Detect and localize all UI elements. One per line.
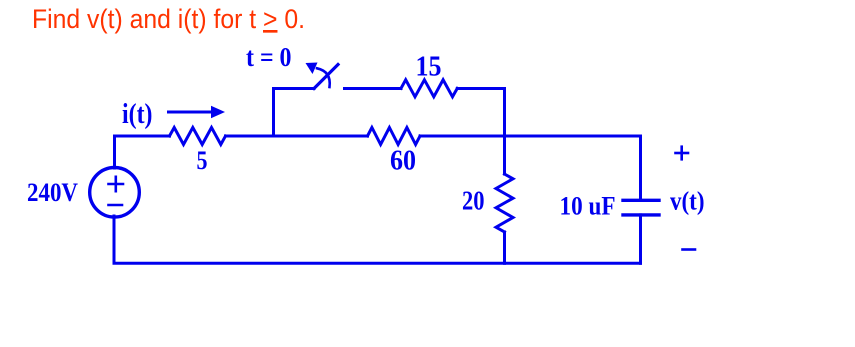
switch motion arc xyxy=(317,68,330,87)
voltage source V1 240V circle xyxy=(90,168,140,218)
svg-text:240V: 240V xyxy=(27,178,78,207)
wire: middle left segment from source top corner to R5 xyxy=(115,136,170,168)
resistor 15 (zigzag) xyxy=(401,80,457,97)
resistor 60 (zigzag) xyxy=(368,128,421,145)
current arrow i(t) xyxy=(169,111,215,114)
wire: 20-branch upper lead xyxy=(503,136,506,174)
wire: capacitor branch bottom lead xyxy=(639,215,642,263)
wire: middle segment R5 to R60 xyxy=(226,135,368,138)
svg-text:60: 60 xyxy=(390,146,416,177)
plus sign for v(t) xyxy=(676,152,689,155)
wire: middle segment R60 to top-right corner xyxy=(420,135,641,138)
svg-text:i(t): i(t) xyxy=(122,99,153,130)
wire: capacitor branch top lead xyxy=(639,136,642,200)
wire: switch right contact to R15 xyxy=(345,87,402,90)
wire: bottom return wire xyxy=(114,262,641,265)
wire: source bottom lead xyxy=(113,216,116,263)
svg-text:5: 5 xyxy=(197,146,208,175)
node A: switch branch vertical riser xyxy=(274,89,315,137)
svg-text:v(t): v(t) xyxy=(670,187,705,216)
svg-text:t = 0: t = 0 xyxy=(246,41,292,72)
plus sign inside source xyxy=(109,183,124,186)
svg-text:20: 20 xyxy=(462,186,485,216)
minus sign for v(t) xyxy=(683,248,696,251)
capacitor C1 top plate xyxy=(623,199,659,202)
resistor 20 (vertical zigzag) xyxy=(496,174,513,232)
svg-text:10 uF: 10 uF xyxy=(560,191,616,220)
wire: 20-branch lower lead xyxy=(503,232,506,263)
resistor 5 (zigzag) xyxy=(170,128,226,145)
svg-text:15: 15 xyxy=(416,52,442,83)
switch arrow head xyxy=(306,63,318,75)
capacitor C1 bottom plate xyxy=(623,213,659,216)
minus sign inside source xyxy=(109,204,123,207)
wire: R15 to junction, down to middle wire xyxy=(457,89,504,137)
switch blade (open) xyxy=(314,65,338,89)
svg-text:Find v(t) and i(t) for t > 0.: Find v(t) and i(t) for t > 0. xyxy=(32,4,305,34)
